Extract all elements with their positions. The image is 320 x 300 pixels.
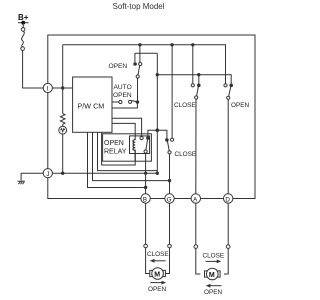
wire P/W CM pin3 to common — [98, 132, 158, 170]
junction J-lamp — [61, 172, 64, 175]
wire P/W CM pin to relay coil (y123.4) — [112, 123, 135, 140]
junction I-node — [61, 86, 64, 89]
junction rail at driver OPEN switch — [138, 43, 141, 46]
junction relay-B at J line — [144, 172, 147, 175]
svg-text:CLOSE: CLOSE — [203, 253, 225, 260]
connector J — [43, 169, 52, 178]
wire J line — [52, 172, 157, 174]
svg-text:OPEN: OPEN — [104, 140, 124, 147]
wire relay contact feed from common — [148, 130, 157, 136]
relay contact — [140, 136, 150, 153]
junction pin1 at B wire — [144, 186, 147, 189]
wire I to P/W CM — [52, 87, 72, 89]
svg-text:OPEN: OPEN — [204, 289, 222, 296]
passenger OPEN switch S4 — [224, 84, 233, 100]
wire auto-open lever return — [112, 102, 137, 108]
junction pin2 at G wire — [168, 179, 171, 182]
svg-text:G: G — [167, 196, 172, 203]
left motor M1 — [146, 248, 170, 280]
lamp resistor R — [60, 88, 65, 124]
svg-text:J: J — [46, 171, 49, 178]
indicator lamp L — [59, 124, 67, 134]
auto-open switch S2 — [112, 100, 139, 104]
ground — [18, 181, 25, 184]
wire B+ to node I — [23, 50, 43, 88]
arrow close left motor — [150, 259, 166, 263]
wire CLOSE switch feed — [198, 75, 200, 84]
close-relay switch S5 — [165, 138, 174, 154]
svg-text:Soft-top Model: Soft-top Model — [113, 2, 165, 11]
wire P/W CM pin1 to B — [88, 132, 146, 187]
wire common horizontal to right switches — [157, 75, 231, 84]
wire D to right motor — [227, 203, 229, 245]
connector I — [43, 83, 52, 92]
terminal left motor 1 — [144, 244, 148, 248]
arrow open left motor — [150, 281, 166, 285]
wire B to left motor — [145, 203, 147, 244]
svg-text:B+: B+ — [18, 13, 29, 22]
relay inner box — [130, 136, 150, 154]
label OPEN RELAY — [104, 140, 127, 156]
terminal left motor 2 — [168, 244, 172, 248]
wire lamp to J line — [62, 134, 64, 173]
svg-text:P/W CM: P/W CM — [78, 102, 105, 111]
wire P/W CM pin4 to relay coil — [102, 132, 136, 165]
junction J line end — [156, 172, 159, 175]
junction common upper — [156, 73, 159, 76]
arrow open right motor — [206, 284, 222, 288]
connector D — [224, 194, 233, 204]
svg-text:OPEN: OPEN — [109, 63, 128, 70]
svg-text:OPEN: OPEN — [148, 286, 166, 293]
svg-text:AUTO: AUTO — [114, 84, 132, 91]
fusible link FL — [21, 23, 25, 51]
connector G — [165, 194, 174, 204]
svg-text:A: A — [193, 196, 198, 203]
node B+ terminal — [18, 21, 29, 25]
svg-text:OPEN: OPEN — [113, 92, 132, 99]
wire J to ground — [21, 173, 43, 180]
P/W CM box U1 — [73, 77, 112, 132]
wire rail to relay-close contact — [171, 45, 173, 138]
label AUTO OPEN — [113, 84, 132, 99]
junction common at CLOSE switch — [197, 73, 200, 76]
svg-text:M: M — [209, 272, 215, 279]
arrow close right motor — [206, 260, 222, 264]
svg-text:B: B — [143, 196, 147, 203]
driver OPEN switch S1 — [133, 45, 157, 78]
terminal right motor 2 — [226, 245, 230, 249]
wire CLOSE lever to A — [195, 99, 197, 194]
svg-text:CLOSE: CLOSE — [147, 251, 169, 258]
terminal right motor 1 — [194, 245, 198, 249]
svg-text:I: I — [47, 86, 49, 93]
wire B+ top rail — [63, 45, 226, 84]
wire B+ rail riser — [62, 45, 64, 88]
svg-text:CLOSE: CLOSE — [175, 151, 197, 158]
wire A to right motor — [195, 203, 197, 245]
connector A — [191, 194, 200, 204]
wire driver switch lever to auto-open lever — [137, 78, 139, 100]
svg-text:CLOSE: CLOSE — [174, 102, 196, 109]
junction rail at passenger CLOSE switch — [191, 43, 194, 46]
wire OPEN lever to D — [227, 99, 229, 193]
right motor M2 — [196, 248, 228, 279]
wire close-relay lever to G — [169, 154, 171, 194]
junction rail at close-relay switch — [170, 43, 173, 46]
wire P/W CM pin2 to G — [93, 132, 170, 180]
relay coil — [133, 140, 135, 162]
svg-text:RELAY: RELAY — [104, 149, 127, 156]
wire common to close-relay switch contact — [157, 130, 167, 138]
open relay box K1 — [103, 134, 152, 161]
passenger CLOSE switch S3 — [191, 45, 200, 99]
wire G to left motor — [169, 203, 171, 244]
junction common lower — [156, 128, 160, 132]
wire relay lever to B — [145, 153, 147, 194]
wire common line riser — [156, 53, 158, 173]
wire P/W CM pin to relay contact (y118) — [112, 118, 142, 136]
svg-text:D: D — [225, 196, 230, 203]
outer box P/W main switch — [48, 35, 255, 199]
svg-text:M: M — [154, 271, 160, 278]
connector B — [141, 194, 150, 204]
svg-text:OPEN: OPEN — [231, 102, 249, 109]
